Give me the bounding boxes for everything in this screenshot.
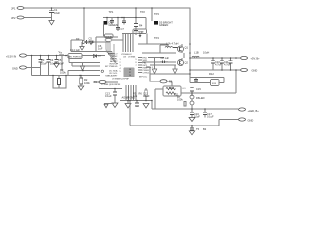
svg-text:INT PWRGD: INT PWRGD bbox=[105, 66, 118, 68]
svg-text:2: 2 bbox=[120, 62, 121, 64]
svg-text:Q1: Q1 bbox=[185, 46, 189, 50]
svg-text:GREEN: GREEN bbox=[109, 23, 118, 27]
svg-text:GND: GND bbox=[248, 118, 254, 122]
svg-text:1uF: 1uF bbox=[165, 56, 170, 60]
svg-text:TP1: TP1 bbox=[109, 10, 114, 14]
svg-text:10uF: 10uF bbox=[58, 62, 64, 66]
svg-text:LT3966 QFN 28PIN: LT3966 QFN 28PIN bbox=[101, 84, 121, 86]
svg-text:26: 26 bbox=[129, 75, 131, 77]
svg-text:PGND: PGND bbox=[128, 96, 136, 100]
svg-text:Q2: Q2 bbox=[185, 61, 189, 65]
svg-text:7: 7 bbox=[136, 65, 137, 67]
svg-text:28: 28 bbox=[129, 69, 131, 71]
svg-text:R12: R12 bbox=[209, 72, 214, 76]
svg-text:5: 5 bbox=[120, 71, 121, 73]
svg-text:R10: R10 bbox=[169, 86, 174, 90]
svg-text:R4: R4 bbox=[139, 24, 143, 28]
svg-text:4.7uF: 4.7uF bbox=[215, 62, 222, 66]
svg-text:U2 MODE: U2 MODE bbox=[135, 31, 145, 33]
svg-text:C5: C5 bbox=[58, 58, 62, 62]
svg-text:R6: R6 bbox=[139, 92, 143, 96]
svg-text:0.1uF: 0.1uF bbox=[143, 94, 150, 98]
svg-text:10uF: 10uF bbox=[50, 62, 56, 66]
svg-text:100k: 100k bbox=[177, 97, 183, 101]
svg-text:+5.5V IN: +5.5V IN bbox=[6, 54, 16, 58]
svg-text:0.1uF: 0.1uF bbox=[105, 94, 112, 98]
svg-text:C15: C15 bbox=[196, 87, 201, 91]
svg-text:TP4: TP4 bbox=[154, 36, 159, 40]
svg-text:R8 0.1: R8 0.1 bbox=[147, 67, 154, 69]
svg-text:100k: 100k bbox=[60, 71, 66, 75]
svg-text:D3: D3 bbox=[76, 37, 80, 41]
svg-text:JP1: JP1 bbox=[11, 6, 16, 10]
svg-text:JP2: JP2 bbox=[11, 16, 16, 20]
svg-text:GND: GND bbox=[252, 69, 258, 73]
svg-text:4.7uH: 4.7uH bbox=[172, 42, 179, 46]
svg-text:R3: R3 bbox=[94, 80, 98, 84]
svg-text:R1 PWRGD: R1 PWRGD bbox=[70, 56, 82, 58]
svg-text:GND: GND bbox=[12, 66, 18, 70]
svg-text:C14 1uF: C14 1uF bbox=[70, 48, 80, 52]
svg-text:0.1uF: 0.1uF bbox=[207, 114, 214, 118]
svg-text:10uF: 10uF bbox=[194, 114, 200, 118]
svg-text:3: 3 bbox=[120, 65, 121, 67]
svg-text:B2: B2 bbox=[203, 127, 207, 131]
svg-text:4: 4 bbox=[120, 68, 121, 70]
svg-text:CTRL1: CTRL1 bbox=[143, 72, 151, 74]
svg-text:INTVCC: INTVCC bbox=[139, 77, 148, 79]
svg-text:+LED, B+: +LED, B+ bbox=[248, 109, 260, 113]
svg-text:10uF: 10uF bbox=[54, 11, 60, 15]
svg-text:SMB ALERT: SMB ALERT bbox=[105, 74, 118, 77]
svg-text:GREEN: GREEN bbox=[159, 23, 168, 27]
svg-text:TP2: TP2 bbox=[140, 10, 145, 14]
svg-text:TP3: TP3 bbox=[154, 12, 159, 16]
svg-text:C4: C4 bbox=[50, 58, 54, 62]
svg-text:10uH: 10uH bbox=[203, 51, 209, 55]
svg-text:C7: C7 bbox=[121, 27, 125, 31]
svg-text:1uF: 1uF bbox=[98, 47, 103, 51]
svg-text:100k: 100k bbox=[84, 81, 90, 85]
svg-text:4.7uF: 4.7uF bbox=[224, 62, 231, 66]
svg-text:8: 8 bbox=[136, 62, 137, 64]
svg-text:10uF: 10uF bbox=[41, 62, 47, 66]
svg-text:C5: C5 bbox=[89, 36, 93, 40]
svg-text:+5V, B+: +5V, B+ bbox=[251, 57, 261, 61]
svg-text:L1A: L1A bbox=[166, 42, 171, 46]
svg-text:0.1uF: 0.1uF bbox=[88, 41, 95, 45]
svg-text:9: 9 bbox=[136, 59, 137, 61]
svg-text:C3: C3 bbox=[41, 58, 45, 62]
svg-text:MODE1: MODE1 bbox=[105, 36, 113, 38]
svg-text:1: 1 bbox=[120, 59, 121, 61]
svg-text:LED: LED bbox=[200, 96, 205, 100]
svg-text:L1B: L1B bbox=[194, 51, 199, 55]
svg-text:LT3966EUJ#PBF: LT3966EUJ#PBF bbox=[112, 79, 130, 81]
svg-text:27: 27 bbox=[129, 72, 131, 74]
